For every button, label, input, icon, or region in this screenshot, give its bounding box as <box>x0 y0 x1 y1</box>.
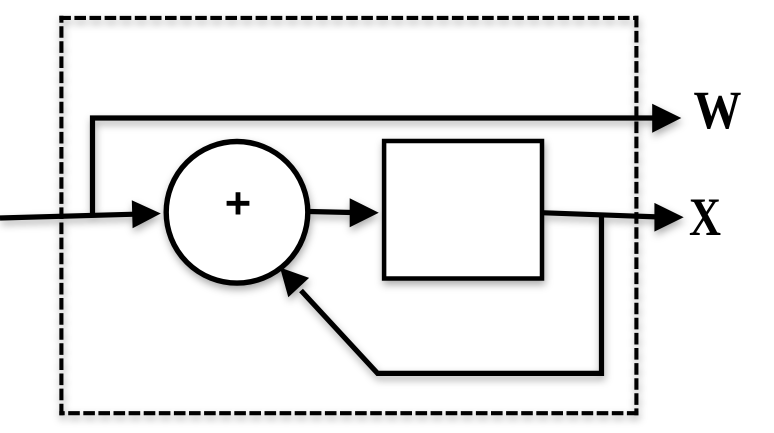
arrowhead: X output arrow <box>654 203 683 232</box>
wire: summer to block <box>309 212 352 213</box>
arrowhead: input arrow into summer <box>132 200 161 228</box>
dashed system boundary: right edge <box>634 16 638 416</box>
dashed system boundary: top edge <box>59 16 638 20</box>
dashed system boundary: left edge <box>59 16 63 416</box>
wire: block output toward X <box>541 213 657 217</box>
wire: feedback path down, left, and diagonal to summer <box>301 215 602 374</box>
arrowhead: feedback into summer <box>280 268 309 298</box>
process block (empty rectangle) <box>384 141 542 279</box>
arrowhead: into block <box>350 198 379 227</box>
wire: branch up and across to W output <box>93 118 654 216</box>
plus sign in summer <box>227 192 250 214</box>
wire: input line from left edge <box>0 214 135 218</box>
arrowhead: W output arrow <box>652 104 681 133</box>
svg-text:W: W <box>694 80 742 140</box>
summing junction circle <box>166 142 308 284</box>
dashed system boundary: bottom edge <box>59 411 638 415</box>
svg-text:X: X <box>689 187 721 247</box>
